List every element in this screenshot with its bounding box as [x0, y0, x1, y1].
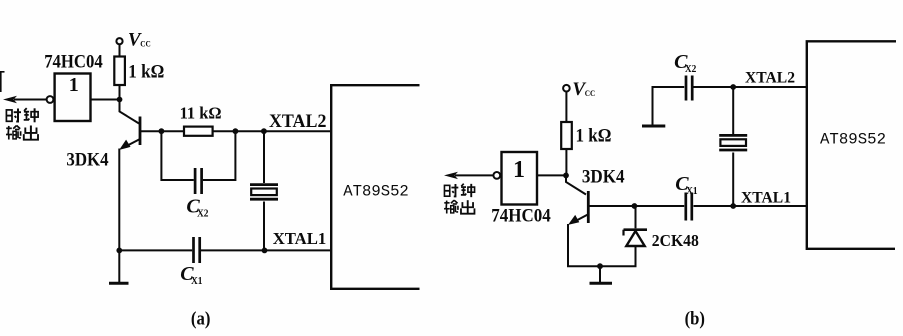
svg-text:1: 1 — [69, 74, 79, 96]
svg-text:CC: CC — [585, 88, 596, 98]
svg-text:XTAL1: XTAL1 — [273, 229, 327, 248]
svg-text:2CK48: 2CK48 — [652, 231, 699, 250]
svg-text:1 kΩ: 1 kΩ — [128, 61, 164, 82]
svg-text:3DK4: 3DK4 — [582, 167, 625, 188]
svg-text:(b): (b) — [685, 309, 705, 330]
svg-text:X1: X1 — [191, 276, 203, 287]
svg-text:X2: X2 — [685, 64, 697, 75]
svg-text:AT89S52: AT89S52 — [343, 182, 409, 200]
svg-text:X1: X1 — [686, 186, 698, 197]
svg-text:1: 1 — [513, 157, 525, 183]
svg-text:XTAL2: XTAL2 — [269, 112, 326, 132]
svg-text:(a): (a) — [191, 309, 211, 330]
svg-text:74HC04: 74HC04 — [491, 206, 551, 227]
svg-text:CC: CC — [140, 38, 151, 48]
svg-text:XTAL2: XTAL2 — [745, 69, 795, 86]
svg-text:X2: X2 — [197, 208, 209, 219]
svg-text:3DK4: 3DK4 — [66, 150, 109, 171]
svg-text:11 kΩ: 11 kΩ — [180, 104, 222, 123]
svg-text:74HC04: 74HC04 — [44, 51, 103, 72]
svg-text:XTAL1: XTAL1 — [741, 189, 791, 206]
svg-text:AT89S52: AT89S52 — [820, 131, 886, 149]
svg-text:1 kΩ: 1 kΩ — [576, 126, 612, 147]
